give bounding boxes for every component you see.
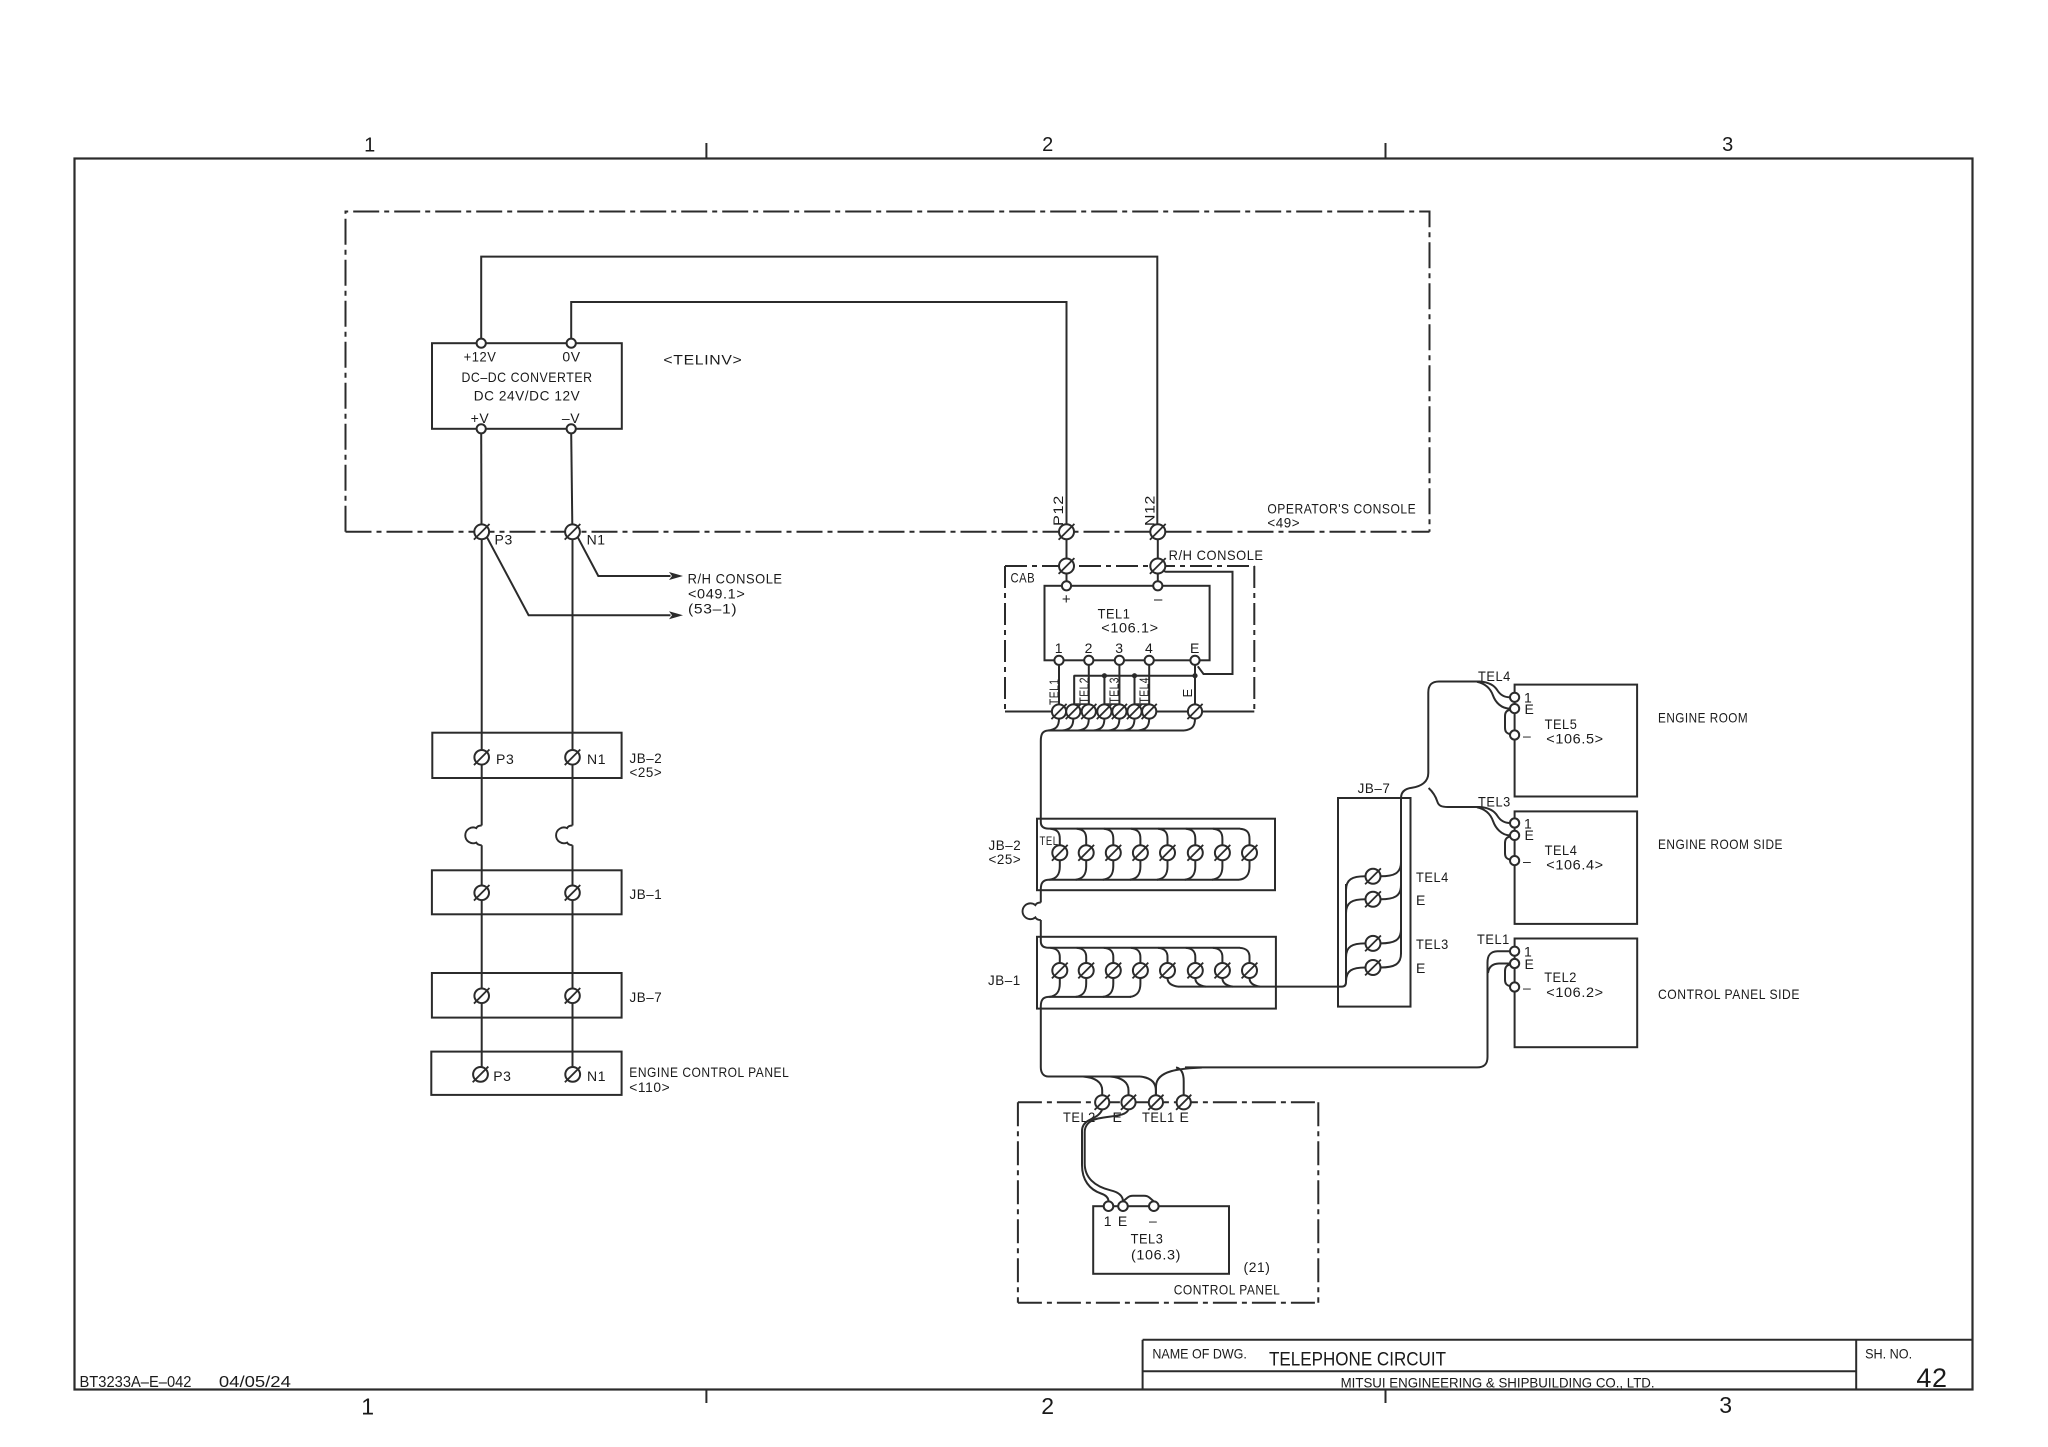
svg-text:<25>: <25> xyxy=(630,764,663,780)
svg-text:JB–7: JB–7 xyxy=(1358,780,1391,796)
svg-text:2: 2 xyxy=(1041,1393,1054,1419)
svg-text:<106.2>: <106.2> xyxy=(1546,984,1603,1000)
svg-text:2: 2 xyxy=(1085,640,1093,656)
JB-1 strip terminal 6 xyxy=(1188,963,1203,978)
operator's console boundary <49> xyxy=(346,212,1430,532)
svg-text:DC–DC CONVERTER: DC–DC CONVERTER xyxy=(462,369,593,385)
label frame TEL2 xyxy=(1074,676,1089,704)
CAB terminal 1 xyxy=(1052,704,1066,718)
JB-7 terminal TEL4 xyxy=(1366,869,1381,884)
wire -V down left column xyxy=(571,433,572,524)
wire pinE down xyxy=(1194,665,1196,705)
cable bundle from CAB to JB-2 xyxy=(1048,719,1059,731)
svg-text:P12: P12 xyxy=(1050,495,1066,526)
TEL1 pin E xyxy=(1190,656,1199,665)
junction box JB-7 xyxy=(1338,798,1411,1007)
wire +V down left column xyxy=(480,433,482,524)
JB-1 terminal xyxy=(474,886,489,901)
svg-text:E: E xyxy=(1525,956,1535,972)
control panel terminal E xyxy=(1121,1095,1135,1109)
JB-1 strip terminal 8 xyxy=(1242,963,1257,978)
svg-text:TEL2: TEL2 xyxy=(1544,969,1577,985)
TEL1 pin 1 xyxy=(1054,656,1063,665)
svg-text:3: 3 xyxy=(1115,640,1123,656)
svg-text:TEL2: TEL2 xyxy=(1077,677,1091,704)
TEL3 jumper E to - xyxy=(1123,1196,1154,1202)
svg-text:+: + xyxy=(1062,591,1071,608)
svg-text:(21): (21) xyxy=(1244,1259,1271,1275)
svg-text:1: 1 xyxy=(364,135,376,157)
JB-2 bottom bus xyxy=(1049,860,1060,880)
ECP terminal N1 xyxy=(565,1067,580,1082)
TEL2 jumper E to - xyxy=(1505,964,1511,986)
svg-text:TEL1: TEL1 xyxy=(1477,931,1510,947)
svg-text:E: E xyxy=(1190,640,1200,656)
wire pin2 down xyxy=(1088,665,1090,705)
svg-text:DC 24V/DC 12V: DC 24V/DC 12V xyxy=(474,388,581,404)
svg-text:1: 1 xyxy=(361,1394,374,1420)
svg-text:1: 1 xyxy=(1104,1213,1112,1229)
node N1 xyxy=(565,524,580,539)
wire pin1 down xyxy=(1058,665,1060,705)
telephone TEL2 <106.2> xyxy=(1515,939,1638,1048)
JB-7 right riser xyxy=(1400,798,1402,954)
CAB terminal 4 xyxy=(1097,704,1111,718)
svg-text:ENGINE ROOM: ENGINE ROOM xyxy=(1658,710,1748,726)
TEL3 pin - xyxy=(1149,1201,1159,1211)
cable break N1 column xyxy=(556,826,572,846)
JB-2 strip terminal 6 xyxy=(1188,845,1203,860)
telephone TEL5 <106.5> xyxy=(1515,685,1638,797)
wire +12V to N12 xyxy=(481,257,1157,525)
svg-text:N1: N1 xyxy=(587,531,606,547)
svg-text:–: – xyxy=(1523,728,1531,744)
TEL5 pin E xyxy=(1510,704,1519,713)
TEL4 pin - xyxy=(1510,856,1519,865)
link wire from - to E xyxy=(1163,571,1233,675)
svg-text:R/H CONSOLE: R/H CONSOLE xyxy=(1169,547,1264,563)
svg-text:<110>: <110> xyxy=(629,1079,670,1095)
svg-text:TEL3: TEL3 xyxy=(1131,1231,1164,1247)
JB-1 strip terminal 5 xyxy=(1160,963,1175,978)
svg-text:E: E xyxy=(1525,827,1535,843)
svg-text:<106.5>: <106.5> xyxy=(1546,731,1603,747)
svg-text:TEL1: TEL1 xyxy=(1048,679,1062,706)
svg-text:–: – xyxy=(1149,1213,1157,1229)
wire 0V to P12 xyxy=(571,302,1066,524)
svg-text:2: 2 xyxy=(1042,134,1054,156)
telephone TEL3 (106.3) xyxy=(1093,1206,1229,1274)
TEL4 pin 1 xyxy=(1510,818,1519,827)
TEL4 jumper E to - xyxy=(1505,836,1511,859)
TEL2 pin E xyxy=(1510,959,1519,968)
svg-text:P3: P3 xyxy=(496,751,514,767)
JB-1 terminal xyxy=(565,886,580,901)
ECP terminal P3 xyxy=(473,1067,488,1082)
junction dot E2 xyxy=(1102,673,1107,678)
svg-text:E: E xyxy=(1416,960,1426,976)
svg-text:R/H CONSOLE: R/H CONSOLE xyxy=(688,570,783,586)
wire pin4 down xyxy=(1148,665,1150,705)
JB-7 terminal TEL3 xyxy=(1366,936,1381,951)
svg-text:CONTROL PANEL SIDE: CONTROL PANEL SIDE xyxy=(1658,986,1800,1002)
svg-text:<106.4>: <106.4> xyxy=(1546,857,1603,873)
svg-text:E: E xyxy=(1118,1213,1128,1229)
junction dot E xyxy=(1192,673,1197,678)
svg-text:04/05/24: 04/05/24 xyxy=(219,1374,291,1391)
cable TEL2/E down to TEL3 xyxy=(1082,1109,1109,1201)
CAB boundary xyxy=(1004,566,1006,711)
TEL1 pin 3 xyxy=(1115,656,1124,665)
svg-text:(53–1): (53–1) xyxy=(688,600,737,616)
JB-1 strip terminal 3 xyxy=(1106,963,1121,978)
JB-2 strip terminal 1 xyxy=(1052,845,1067,860)
svg-text:SH. NO.: SH. NO. xyxy=(1865,1346,1912,1362)
control panel terminal TEL1 xyxy=(1149,1095,1163,1109)
TEL1 pin 2 xyxy=(1084,656,1093,665)
converter pin +12V xyxy=(477,339,486,348)
junction dot E3 xyxy=(1132,673,1137,678)
label frame TEL4 xyxy=(1135,676,1150,704)
svg-text:BT3233A–E–042: BT3233A–E–042 xyxy=(80,1374,192,1391)
JB-1 right bus to JB-7 xyxy=(1168,978,1179,987)
cable break P3 column xyxy=(465,826,481,846)
TEL5 pin 1 xyxy=(1510,693,1519,702)
TEL1 pin - xyxy=(1153,581,1162,590)
svg-text:JB–7: JB–7 xyxy=(630,989,663,1005)
svg-text:TEL1: TEL1 xyxy=(1142,1109,1175,1125)
svg-text:TEL3: TEL3 xyxy=(1108,677,1122,704)
TEL1 pin 4 xyxy=(1145,656,1154,665)
JB-7 left riser xyxy=(1345,884,1347,982)
svg-text:N1: N1 xyxy=(587,751,606,767)
cable JB-2 to JB-1 xyxy=(1040,890,1042,903)
converter pin -V xyxy=(567,424,576,433)
sheet zone ticks and numbers xyxy=(705,143,707,159)
JB-1 strip terminal 4 xyxy=(1133,963,1148,978)
cable TEL3 from JB-7 to TEL4 xyxy=(1429,788,1480,807)
JB-7 terminal xyxy=(565,989,580,1004)
CAB terminal 6 xyxy=(1127,704,1141,718)
R/H console boundary line xyxy=(1005,565,1254,567)
CAB terminal 5 xyxy=(1112,704,1126,718)
svg-text:P3: P3 xyxy=(495,531,513,547)
cable TEL1 fan to terminals xyxy=(1156,1068,1202,1096)
svg-text:–: – xyxy=(1154,591,1163,608)
junction box JB-2 terminal strip xyxy=(1037,819,1275,891)
svg-text:TELEPHONE CIRCUIT: TELEPHONE CIRCUIT xyxy=(1269,1348,1446,1370)
JB-1 bottom bus to control panel xyxy=(1049,978,1060,997)
wire pin3 down xyxy=(1118,665,1120,705)
svg-text:CONTROL PANEL: CONTROL PANEL xyxy=(1174,1282,1281,1298)
svg-text:TEL3: TEL3 xyxy=(1416,936,1449,952)
svg-text:<25>: <25> xyxy=(989,851,1022,867)
JB-7 terminal xyxy=(474,989,489,1004)
svg-text:4: 4 xyxy=(1145,640,1153,656)
JB-2 strip terminal 4 xyxy=(1133,845,1148,860)
converter pin 0V xyxy=(567,339,576,348)
svg-text:(106.3): (106.3) xyxy=(1131,1247,1181,1263)
svg-text:JB–1: JB–1 xyxy=(988,972,1021,988)
telephone TEL1 <106.1> xyxy=(1045,586,1210,661)
junction box JB-1 (left) xyxy=(432,870,622,914)
svg-text:3: 3 xyxy=(1722,134,1734,156)
svg-text:<49>: <49> xyxy=(1267,515,1300,531)
svg-text:ENGINE ROOM SIDE: ENGINE ROOM SIDE xyxy=(1658,836,1783,852)
JB-2 top feed bus xyxy=(1049,828,1241,830)
svg-text:<049.1>: <049.1> xyxy=(688,585,745,601)
wire JB-1 to control panel terminals xyxy=(1041,1067,1049,1077)
wire to TEL1 - xyxy=(1157,574,1159,582)
TEL3 pin E xyxy=(1118,1201,1128,1211)
JB-2 strip terminal 7 xyxy=(1215,845,1230,860)
svg-text:P3: P3 xyxy=(493,1068,511,1084)
svg-text:TEL2: TEL2 xyxy=(1063,1109,1096,1125)
svg-text:+12V: +12V xyxy=(464,349,497,365)
title block xyxy=(1143,1339,1973,1341)
CAB terminal 2 xyxy=(1066,704,1080,718)
wire P12 to console terminal xyxy=(1066,539,1068,558)
svg-text:CAB: CAB xyxy=(1011,570,1036,586)
JB-2 strip terminal 2 xyxy=(1079,845,1094,860)
svg-text:JB–1: JB–1 xyxy=(630,886,663,902)
svg-text:<106.1>: <106.1> xyxy=(1101,620,1158,636)
cable TEL1 from control panel to TEL2 xyxy=(1488,951,1511,962)
svg-text:42: 42 xyxy=(1916,1363,1947,1393)
svg-text:–: – xyxy=(1523,980,1531,996)
svg-text:N1: N1 xyxy=(587,1068,606,1084)
TEL4 pin E xyxy=(1510,831,1519,840)
JB-7 terminal E xyxy=(1366,892,1381,907)
JB-2 terminal N1 xyxy=(565,750,580,765)
R/H console terminal - xyxy=(1150,559,1165,574)
svg-text:1: 1 xyxy=(1055,640,1063,656)
junction box JB-2 (left) xyxy=(432,733,621,778)
cable TEL4 from JB-7 to TEL5 xyxy=(1401,682,1480,799)
CAB terminal 7 xyxy=(1142,704,1156,718)
TEL3 pin 1 xyxy=(1104,1201,1114,1211)
JB-2 terminal P3 xyxy=(474,750,489,765)
E bus xyxy=(1074,675,1195,677)
svg-text:–: – xyxy=(1523,853,1531,869)
cable break xyxy=(1023,903,1041,921)
svg-text:TEL4: TEL4 xyxy=(1416,869,1449,885)
control panel terminal TEL2 xyxy=(1095,1095,1109,1109)
engine control panel box <110> xyxy=(431,1052,621,1095)
dc-dc converter TELINV xyxy=(432,343,622,429)
JB-2 strip terminal 8 xyxy=(1242,845,1257,860)
svg-text:NAME OF DWG.: NAME OF DWG. xyxy=(1152,1346,1247,1362)
leader from P3 to (53-1) reference xyxy=(487,537,671,615)
JB-1 strip terminal 1 xyxy=(1052,963,1067,978)
TEL2 pin 1 xyxy=(1510,947,1519,956)
svg-text:TEL4: TEL4 xyxy=(1138,677,1152,704)
JB-2 strip terminal 3 xyxy=(1106,845,1121,860)
svg-text:E: E xyxy=(1180,1109,1190,1125)
label frame TEL3 xyxy=(1104,676,1119,704)
junction box JB-1 terminal strip xyxy=(1037,937,1276,1009)
svg-text:<TELINV>: <TELINV> xyxy=(663,352,742,368)
CAB terminal E xyxy=(1188,704,1202,718)
TEL1 pin + xyxy=(1062,581,1071,590)
R/H console terminal + xyxy=(1059,559,1074,574)
svg-text:MITSUI ENGINEERING & SHIPBUILD: MITSUI ENGINEERING & SHIPBUILDING CO., L… xyxy=(1341,1374,1655,1390)
wire to TEL1 + xyxy=(1066,574,1068,582)
svg-text:3: 3 xyxy=(1719,1392,1732,1418)
control panel terminal E xyxy=(1177,1095,1191,1109)
JB-1 strip terminal 2 xyxy=(1079,963,1094,978)
CAB terminal 3 xyxy=(1082,704,1096,718)
JB-1 top feed bus xyxy=(1049,947,1241,949)
svg-text:ENGINE CONTROL PANEL: ENGINE CONTROL PANEL xyxy=(629,1064,789,1080)
svg-text:E: E xyxy=(1180,688,1195,697)
svg-text:0V: 0V xyxy=(562,349,580,365)
converter pin +V xyxy=(477,424,486,433)
JB-1 strip terminal 7 xyxy=(1215,963,1230,978)
JB-7 terminal E xyxy=(1366,960,1381,975)
TEL5 jumper E to - xyxy=(1505,710,1511,735)
control panel boundary xyxy=(1018,1101,1318,1103)
telephone TEL4 <106.4> xyxy=(1515,811,1638,924)
TEL2 pin - xyxy=(1510,982,1519,991)
svg-text:E: E xyxy=(1525,701,1535,717)
node P3 xyxy=(474,524,489,539)
JB-2 strip terminal 5 xyxy=(1160,845,1175,860)
TEL5 pin - xyxy=(1510,730,1519,739)
leader from N1 to R/H console reference xyxy=(578,537,671,576)
svg-text:E: E xyxy=(1416,892,1426,908)
svg-text:N12: N12 xyxy=(1142,495,1158,526)
junction box JB-7 (left) xyxy=(432,973,622,1018)
CAB bottom rail xyxy=(1005,711,1254,713)
wire N12 to console terminal xyxy=(1157,539,1159,558)
